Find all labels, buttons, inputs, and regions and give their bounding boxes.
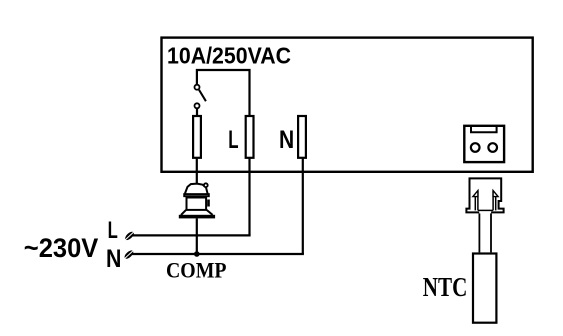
sensor socket slot bbox=[471, 126, 497, 133]
terminal T3 N bbox=[298, 116, 306, 158]
svg-text:N: N bbox=[106, 245, 121, 273]
relay contact bottom bbox=[195, 103, 200, 108]
svg-text:L: L bbox=[228, 127, 238, 154]
wire T2 down to L supply bbox=[248, 158, 250, 236]
svg-text:10A/250VAC: 10A/250VAC bbox=[167, 42, 291, 68]
svg-text:N: N bbox=[279, 127, 294, 154]
compressor side tab bbox=[207, 200, 210, 207]
svg-text:NTC: NTC bbox=[423, 272, 468, 302]
terminal T1 bbox=[193, 116, 201, 158]
NTC probe bbox=[473, 254, 496, 323]
NTC plug channel bottom bbox=[478, 209, 493, 211]
compressor skirt right bbox=[207, 210, 213, 215]
svg-text:L: L bbox=[108, 217, 118, 244]
wire T3 down to N supply bbox=[302, 158, 304, 254]
compressor body bbox=[187, 198, 207, 210]
sensor socket outline bbox=[464, 126, 504, 162]
compressor collar bbox=[184, 194, 209, 196]
compressor base bbox=[179, 215, 215, 219]
svg-text:COMP: COMP bbox=[166, 258, 227, 283]
NTC plug housing bbox=[466, 178, 503, 212]
compressor skirt left bbox=[181, 210, 186, 215]
sensor socket pin hole left bbox=[471, 143, 480, 152]
relay contact top bbox=[195, 85, 200, 90]
wire compressor to N junction bbox=[196, 218, 198, 254]
NTC cable left bbox=[478, 213, 480, 252]
supply arrow N bbox=[123, 249, 135, 260]
terminal T2 L bbox=[246, 116, 254, 158]
wire T1 to compressor bbox=[196, 158, 198, 185]
svg-text:~230V: ~230V bbox=[24, 233, 99, 263]
NTC cable right bbox=[490, 213, 492, 252]
relay blade bbox=[199, 90, 206, 101]
NTC plug pin right bbox=[493, 191, 498, 211]
wire N supply horizontal bbox=[132, 253, 304, 255]
wire contact to terminal bbox=[196, 109, 198, 116]
NTC plug pin left bbox=[473, 191, 478, 211]
compressor dome bbox=[185, 184, 208, 194]
compressor ear bbox=[204, 183, 208, 187]
supply arrow L bbox=[124, 230, 136, 241]
wire relay top bbox=[197, 70, 250, 115]
junction dot COMP-N bbox=[194, 251, 200, 257]
controller box bbox=[162, 38, 533, 172]
wire L supply horizontal bbox=[133, 234, 251, 236]
sensor socket pin hole right bbox=[488, 143, 497, 152]
